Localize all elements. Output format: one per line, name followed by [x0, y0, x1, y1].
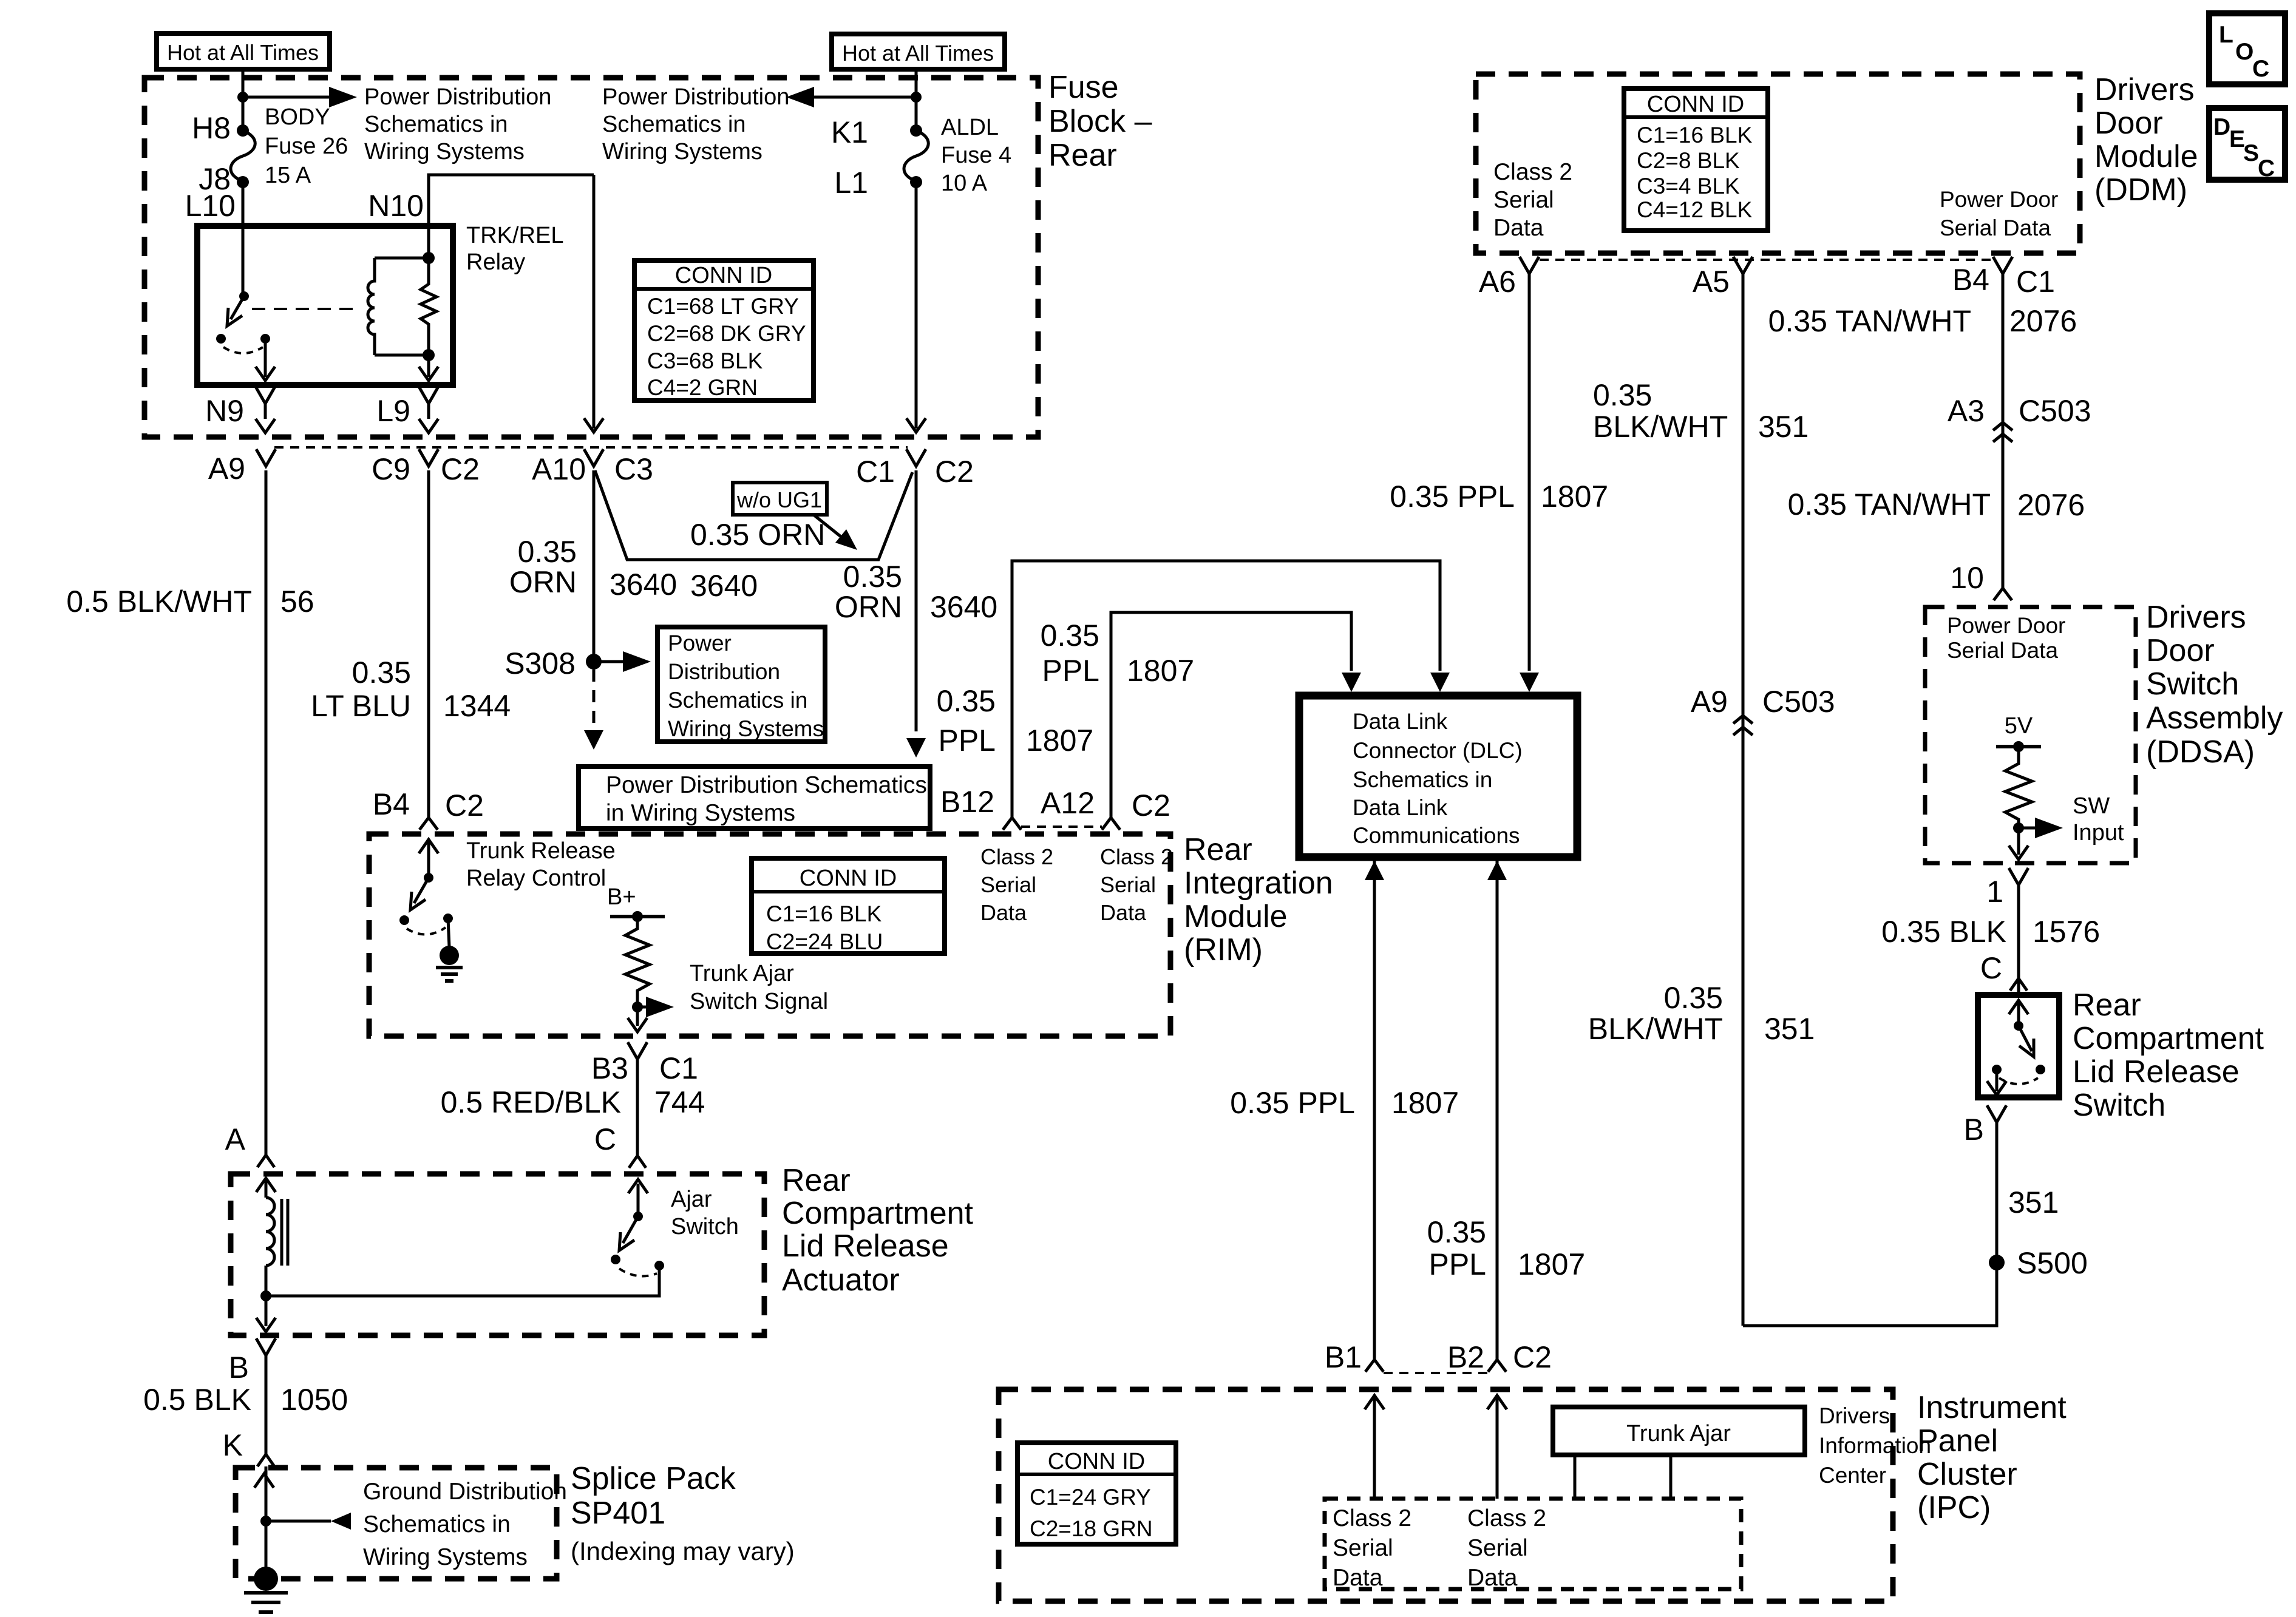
svg-text:Power Distribution Schematics: Power Distribution Schematics [606, 772, 927, 798]
svg-text:0.35 BLK: 0.35 BLK [1881, 915, 2006, 949]
svg-text:N10: N10 [368, 189, 424, 223]
svg-text:B4: B4 [1952, 263, 1989, 297]
svg-text:C2: C2 [1132, 788, 1170, 822]
svg-text:Schematics in: Schematics in [363, 1511, 511, 1537]
svg-text:ORN: ORN [835, 590, 902, 624]
svg-text:C1: C1 [659, 1051, 698, 1085]
svg-text:Class 2: Class 2 [1467, 1505, 1546, 1531]
svg-text:C9: C9 [372, 452, 410, 486]
svg-text:CONN ID: CONN ID [1647, 92, 1744, 117]
Hot at All Times box 1 [157, 33, 330, 69]
arrow S308 to PDS box [594, 660, 625, 663]
relay resistor [421, 258, 436, 355]
connector C9 / C2 [419, 449, 438, 466]
connector A9 [256, 449, 276, 466]
svg-text:C1: C1 [2016, 265, 2055, 299]
wire across to S500 [1743, 1122, 1997, 1326]
connector 10 (DDSA) [1994, 588, 2012, 600]
svg-text:A12: A12 [1041, 786, 1095, 820]
fuse F26 terminal J8 [237, 176, 249, 188]
svg-text:C503: C503 [2019, 394, 2091, 428]
w/o UG1 note box [733, 483, 827, 515]
DESC index box [2209, 108, 2285, 180]
svg-text:C1=24 GRY: C1=24 GRY [1030, 1485, 1151, 1510]
svg-text:C2=68 DK GRY: C2=68 DK GRY [647, 321, 806, 346]
svg-text:Data Link: Data Link [1353, 795, 1448, 820]
svg-text:K1: K1 [831, 115, 868, 149]
RIM pull-up resistor [625, 917, 650, 1007]
svg-text:56: 56 [280, 585, 314, 619]
svg-text:1344: 1344 [443, 689, 511, 723]
Trunk Ajar indicator box [1553, 1407, 1805, 1455]
arrow up inside IPC (B2) [1487, 1395, 1507, 1409]
svg-text:A3: A3 [1948, 394, 1985, 428]
node junction ALDL feed [911, 92, 922, 103]
svg-text:2076: 2076 [2017, 488, 2085, 522]
svg-text:C2: C2 [441, 452, 480, 486]
svg-text:L10: L10 [185, 189, 236, 223]
svg-text:B: B [1964, 1113, 1984, 1147]
svg-text:Assembly: Assembly [2146, 700, 2283, 736]
CONN ID table (fuse block) [634, 260, 813, 401]
svg-text:1576: 1576 [2033, 915, 2100, 949]
svg-text:(DDSA): (DDSA) [2146, 734, 2255, 770]
svg-text:3640: 3640 [610, 568, 677, 602]
svg-text:Data: Data [1467, 1565, 1518, 1591]
svg-text:PPL: PPL [938, 724, 996, 758]
svg-text:Serial: Serial [1467, 1535, 1528, 1561]
trunk release relay control arrow into RIM [419, 839, 438, 853]
svg-text:N9: N9 [205, 394, 244, 428]
connector A10 / C3 [584, 449, 603, 466]
relay TRK/REL box [197, 226, 453, 385]
svg-text:1: 1 [1986, 875, 2003, 909]
svg-text:B+: B+ [607, 884, 636, 910]
svg-text:Serial: Serial [1493, 187, 1554, 213]
svg-text:(IPC): (IPC) [1917, 1490, 1991, 1525]
node junction on BODY fuse feed [237, 92, 248, 103]
svg-text:Cluster: Cluster [1917, 1457, 2017, 1492]
svg-text:Drivers: Drivers [2146, 600, 2246, 635]
svg-text:Serial Data: Serial Data [1947, 638, 2058, 663]
svg-text:0.35 PPL: 0.35 PPL [1390, 480, 1515, 514]
Trunk Ajar box stubs [1574, 1455, 1577, 1499]
svg-text:w/o UG1: w/o UG1 [736, 487, 822, 512]
connector A3 / C503 inline [1993, 422, 2012, 442]
svg-text:Class 2: Class 2 [1100, 844, 1173, 869]
wire N10 into relay [429, 175, 594, 258]
svg-text:Fuse: Fuse [1048, 70, 1119, 105]
svg-text:1050: 1050 [280, 1383, 348, 1417]
DDSA dashed box [1925, 607, 2136, 863]
wire A5 BLK/WHT down [1742, 274, 1745, 1326]
svg-text:C2: C2 [445, 788, 484, 822]
LOC index box [2209, 13, 2285, 84]
svg-text:Compartment: Compartment [782, 1196, 974, 1231]
svg-text:3640: 3640 [690, 569, 758, 603]
svg-text:0.35: 0.35 [518, 535, 577, 569]
svg-text:A9: A9 [208, 452, 245, 486]
solenoid core lines [280, 1199, 284, 1266]
svg-text:C2: C2 [935, 455, 974, 489]
svg-text:2076: 2076 [2009, 304, 2077, 338]
wire C3/A10 drop [593, 175, 596, 429]
wire A6 class2 serial data to DLC [1528, 274, 1531, 671]
connector A12 / C2 [1102, 818, 1120, 830]
svg-text:S: S [2243, 140, 2259, 166]
svg-text:SW: SW [2073, 793, 2110, 819]
relay mechanical link dashed [252, 308, 359, 310]
svg-text:0.35 TAN/WHT: 0.35 TAN/WHT [1768, 304, 1971, 338]
svg-text:C3: C3 [614, 452, 653, 486]
svg-text:Data Link: Data Link [1353, 709, 1448, 734]
wide PDS box [579, 767, 930, 829]
svg-text:C: C [2252, 56, 2269, 82]
svg-text:S500: S500 [2017, 1246, 2088, 1280]
svg-text:Input: Input [2073, 820, 2124, 846]
CONN ID table (RIM) [752, 858, 945, 954]
svg-text:0.35: 0.35 [1664, 981, 1723, 1015]
arrow to Power Distribution Schematics (second, pointing left) [813, 96, 916, 99]
svg-text:TRK/REL: TRK/REL [466, 223, 563, 248]
svg-text:Distribution: Distribution [668, 659, 780, 684]
svg-text:Information: Information [1819, 1433, 1931, 1458]
svg-text:0.35 ORN: 0.35 ORN [690, 518, 825, 552]
connector B4 / C1 (DDM) [1993, 257, 2012, 274]
svg-text:BODY: BODY [265, 104, 330, 130]
connector A5 [1733, 257, 1753, 274]
wire A9 long drop [265, 470, 268, 1155]
svg-text:Ajar: Ajar [671, 1187, 712, 1212]
arrow up inside actuator (A) [256, 1178, 276, 1192]
arrow up inside IPC (B1) [1365, 1395, 1384, 1409]
lid switch contact right [2036, 1065, 2045, 1074]
svg-text:CONN ID: CONN ID [675, 263, 772, 288]
svg-text:Lid Release: Lid Release [2073, 1054, 2240, 1090]
svg-text:3640: 3640 [930, 590, 997, 624]
ground distribution reference arrow [266, 1520, 331, 1523]
svg-text:A10: A10 [532, 452, 586, 486]
B+ rail bar [610, 915, 665, 918]
svg-text:Power Door: Power Door [1947, 613, 2065, 638]
RIM switch contact right [443, 914, 453, 923]
relay coil [368, 258, 375, 355]
connector B1 [1365, 1360, 1384, 1372]
svg-text:1807: 1807 [1391, 1086, 1459, 1120]
node coil bottom junction [423, 349, 435, 361]
actuator dashed box [231, 1174, 764, 1335]
relay switch travel arc [223, 347, 263, 353]
svg-text:0.35: 0.35 [1427, 1215, 1486, 1249]
svg-text:Module: Module [1184, 899, 1288, 934]
connector A9 / C503 inline [1733, 716, 1753, 735]
svg-text:0.35: 0.35 [937, 684, 996, 718]
RIM switch contact left [399, 915, 409, 925]
svg-text:D: D [2213, 114, 2230, 140]
lid switch contact left [1992, 1065, 2002, 1074]
svg-text:C503: C503 [1762, 685, 1835, 719]
lid switch output arrow [1995, 1070, 1999, 1091]
connector B4 / C2 (RIM) [419, 818, 438, 830]
svg-text:C2: C2 [1513, 1340, 1552, 1374]
fuse F4 ALDL terminal K1 [910, 124, 922, 137]
DLC reference box [1299, 696, 1577, 857]
svg-text:Actuator: Actuator [782, 1263, 900, 1298]
svg-text:Data: Data [980, 900, 1027, 925]
svg-text:Power Distribution: Power Distribution [602, 84, 789, 110]
fuse 26 element [231, 131, 255, 181]
svg-text:0.5 BLK/WHT: 0.5 BLK/WHT [66, 585, 252, 619]
svg-text:B12: B12 [940, 785, 994, 819]
svg-text:Switch: Switch [2146, 666, 2239, 702]
svg-text:10: 10 [1950, 561, 1984, 595]
fuse 4 element [904, 131, 928, 181]
wire 0.35 BLK 1576 [2017, 885, 2020, 995]
RIM switch travel arc [407, 927, 446, 935]
svg-text:B4: B4 [373, 787, 410, 821]
ajar switch travel arc [619, 1269, 657, 1276]
svg-text:351: 351 [1758, 410, 1809, 444]
wire from Hot1 down [242, 69, 245, 131]
svg-text:Communications: Communications [1353, 823, 1520, 848]
svg-text:Ground Distribution: Ground Distribution [363, 1479, 567, 1505]
svg-text:0.35: 0.35 [352, 656, 411, 690]
wire from L1 down to C1 [915, 182, 918, 429]
relay switch arm [231, 296, 244, 319]
lid release switch box [1978, 995, 2059, 1097]
svg-text:L: L [2219, 22, 2233, 48]
relay switch contact right (N9 out) [260, 334, 270, 344]
svg-text:Center: Center [1819, 1463, 1886, 1488]
svg-text:L1: L1 [834, 166, 868, 200]
svg-text:C2=8 BLK: C2=8 BLK [1637, 148, 1740, 173]
svg-text:B3: B3 [591, 1051, 628, 1085]
ground splice dot SP401 [254, 1567, 278, 1591]
svg-text:Connector (DLC): Connector (DLC) [1353, 738, 1523, 763]
svg-text:Data: Data [1333, 1565, 1383, 1591]
svg-text:L9: L9 [376, 394, 410, 428]
svg-text:Schematics in: Schematics in [1353, 767, 1492, 792]
thin dashed link B12-A12 [1021, 825, 1102, 828]
relay L9 output wire [427, 355, 430, 377]
svg-text:C4=2 GRN: C4=2 GRN [647, 375, 758, 400]
ajar switch arm [623, 1216, 638, 1243]
svg-text:Serial: Serial [1100, 872, 1156, 897]
RIM switch pivot [424, 873, 433, 883]
DDM dashed box [1476, 74, 2080, 253]
svg-text:Compartment: Compartment [2073, 1021, 2264, 1056]
svg-text:PPL: PPL [1042, 654, 1099, 688]
svg-text:0.35: 0.35 [1041, 619, 1099, 653]
wire ajar pivot up [637, 1184, 640, 1216]
svg-text:0.35 PPL: 0.35 PPL [1230, 1086, 1355, 1120]
lid switch arm [2019, 1026, 2032, 1051]
svg-text:351: 351 [1764, 1012, 1815, 1046]
svg-text:(RIM): (RIM) [1184, 932, 1263, 968]
svg-text:0.35: 0.35 [843, 560, 902, 594]
svg-text:Serial: Serial [980, 872, 1036, 897]
node splice junction [260, 1516, 271, 1527]
svg-text:CONN ID: CONN ID [800, 866, 897, 891]
wire A12 class2 serial data to DLC [1111, 612, 1351, 818]
node SW input [2013, 822, 2024, 833]
wire from Hot2 down [915, 69, 918, 131]
svg-text:K: K [223, 1428, 243, 1462]
svg-text:O: O [2235, 39, 2254, 65]
connector B2 / C2 [1488, 1360, 1506, 1372]
CONN ID table (DDM) [1624, 89, 1768, 231]
relay N9 output wire [264, 339, 267, 377]
thin dashed link A6-B4 [1540, 259, 1993, 261]
svg-text:Integration: Integration [1184, 866, 1333, 901]
svg-text:C: C [594, 1122, 616, 1156]
ajar switch pivot [633, 1212, 643, 1221]
relay coil bottom rail [375, 354, 429, 357]
wire B2 DLC to IPC [1496, 861, 1499, 1360]
svg-text:Wiring Systems: Wiring Systems [602, 139, 763, 164]
relay switch contact left [216, 334, 226, 344]
node coil top junction [423, 252, 435, 264]
svg-text:H8: H8 [192, 111, 231, 145]
ajar switch contact right [654, 1261, 664, 1270]
svg-text:C1=68 LT GRY: C1=68 LT GRY [647, 294, 799, 319]
svg-text:Rear: Rear [1048, 138, 1117, 173]
svg-text:1807: 1807 [1541, 480, 1608, 514]
svg-text:Drivers: Drivers [2094, 72, 2195, 107]
CONN ID table (IPC) [1017, 1443, 1176, 1544]
wire C2/ORN down into wide PDS box [915, 470, 918, 731]
svg-text:Trunk Release: Trunk Release [466, 838, 616, 864]
svg-text:Wiring Systems: Wiring Systems [364, 139, 525, 164]
svg-text:Rear: Rear [2073, 988, 2141, 1023]
svg-text:Hot at All Times: Hot at All Times [842, 41, 994, 66]
svg-text:Serial: Serial [1333, 1535, 1393, 1561]
svg-text:Data: Data [1493, 215, 1544, 241]
svg-text:Lid Release: Lid Release [782, 1229, 949, 1264]
connector C1 / C2 (ALDL) [906, 449, 926, 466]
svg-text:A5: A5 [1693, 265, 1730, 299]
relay coil top rail [375, 257, 429, 260]
IPC inner dashed box [1325, 1499, 1741, 1589]
svg-text:15 A: 15 A [265, 163, 311, 188]
ajar switch arm arrowhead [619, 1232, 634, 1250]
svg-text:S308: S308 [504, 646, 576, 680]
svg-text:(DDM): (DDM) [2094, 172, 2187, 208]
actuator output down arrow [265, 1296, 268, 1326]
svg-text:Class 2: Class 2 [980, 844, 1053, 869]
thin dashed connector line A9-C1 [274, 446, 908, 449]
svg-text:Power: Power [668, 631, 732, 656]
svg-text:C2=24 BLU: C2=24 BLU [766, 929, 883, 954]
svg-text:Rear: Rear [1184, 832, 1252, 867]
thin dashed link B1-B2 [1384, 1372, 1489, 1374]
svg-text:351: 351 [2008, 1185, 2059, 1219]
svg-text:0.35: 0.35 [1593, 378, 1652, 412]
svg-text:Module: Module [2094, 139, 2198, 174]
svg-text:1807: 1807 [1518, 1247, 1585, 1281]
wire LT BLU from C9 to B4 [427, 470, 430, 818]
splice S500 [1989, 1255, 2005, 1270]
wire into splice pack [265, 1466, 268, 1579]
svg-text:BLK/WHT: BLK/WHT [1588, 1012, 1723, 1046]
wire actuator common to ajar switch [266, 1266, 659, 1296]
lid switch pivot [2014, 1021, 2023, 1031]
svg-text:C1=16 BLK: C1=16 BLK [766, 901, 882, 926]
actuator solenoid coil [265, 1178, 268, 1198]
svg-text:Rear: Rear [782, 1163, 851, 1198]
svg-text:B1: B1 [1325, 1340, 1362, 1374]
wire down out of RIM [636, 1007, 639, 1026]
wire down out of DDSA [2017, 828, 2020, 855]
svg-text:1807: 1807 [1026, 724, 1093, 758]
svg-text:0.5 BLK: 0.5 BLK [143, 1383, 251, 1417]
wire B12 class2 serial data to DLC [1012, 561, 1440, 818]
lid switch travel arc [1999, 1078, 2038, 1084]
svg-text:CONN ID: CONN ID [1048, 1449, 1145, 1474]
svg-text:0.35 TAN/WHT: 0.35 TAN/WHT [1788, 487, 1991, 521]
svg-text:Schematics in: Schematics in [668, 688, 807, 713]
IPC dashed box [999, 1389, 1893, 1601]
svg-text:Power Distribution: Power Distribution [364, 84, 551, 110]
svg-text:Switch: Switch [671, 1214, 739, 1239]
svg-text:Wiring Systems: Wiring Systems [363, 1544, 528, 1570]
svg-text:Trunk Ajar: Trunk Ajar [690, 961, 794, 986]
svg-text:0.5 RED/BLK: 0.5 RED/BLK [441, 1085, 621, 1119]
svg-text:Trunk Ajar: Trunk Ajar [1626, 1421, 1731, 1446]
wire 0.5 BLK 1050 [265, 1355, 268, 1454]
fuse F4 terminal L1 [910, 176, 922, 188]
RIM switch arm [414, 878, 429, 903]
svg-text:C2=18 GRN: C2=18 GRN [1030, 1516, 1153, 1541]
ajar switch contact left [611, 1255, 620, 1264]
svg-text:ORN: ORN [509, 565, 577, 599]
ground splice dot [440, 946, 459, 965]
svg-text:Drivers: Drivers [1819, 1403, 1890, 1428]
svg-text:Splice Pack: Splice Pack [571, 1461, 736, 1496]
svg-text:Relay: Relay [466, 249, 525, 275]
svg-text:C: C [1980, 951, 2002, 985]
w/o UG1 arrow [813, 515, 844, 539]
connector B (actuator out) [256, 1338, 276, 1355]
svg-text:Class 2: Class 2 [1333, 1505, 1411, 1531]
splice S308 [586, 654, 602, 670]
node trunk ajar switch signal [632, 1002, 643, 1012]
svg-text:A6: A6 [1479, 265, 1516, 299]
svg-text:Switch: Switch [2073, 1088, 2165, 1123]
svg-text:C3=4 BLK: C3=4 BLK [1637, 174, 1740, 198]
fuse block rear dashed box [144, 78, 1038, 437]
svg-text:5V: 5V [2005, 713, 2033, 739]
lid switch arm arrowhead [2019, 1039, 2034, 1057]
5V rail bar [1996, 745, 2041, 748]
svg-text:10 A: 10 A [941, 171, 988, 196]
svg-text:SP401: SP401 [571, 1496, 665, 1531]
svg-text:Schematics in: Schematics in [602, 112, 746, 137]
small PDS box [657, 627, 825, 742]
connector A6 [1520, 257, 1539, 274]
wire below coil [265, 1266, 268, 1296]
svg-text:Serial Data: Serial Data [1940, 215, 2051, 240]
svg-text:(Indexing may vary): (Indexing may vary) [571, 1537, 795, 1565]
svg-text:C3=68 BLK: C3=68 BLK [647, 348, 763, 373]
Hot at All Times box 2 [832, 34, 1005, 69]
dashed wire from S308 down [593, 670, 596, 724]
wire 0.35 ORN U-link A10 to C1 [595, 470, 912, 560]
svg-text:LT BLU: LT BLU [311, 689, 411, 723]
svg-text:Wiring Systems: Wiring Systems [668, 716, 824, 741]
svg-text:1807: 1807 [1127, 654, 1194, 688]
svg-text:Fuse 26: Fuse 26 [265, 134, 348, 159]
